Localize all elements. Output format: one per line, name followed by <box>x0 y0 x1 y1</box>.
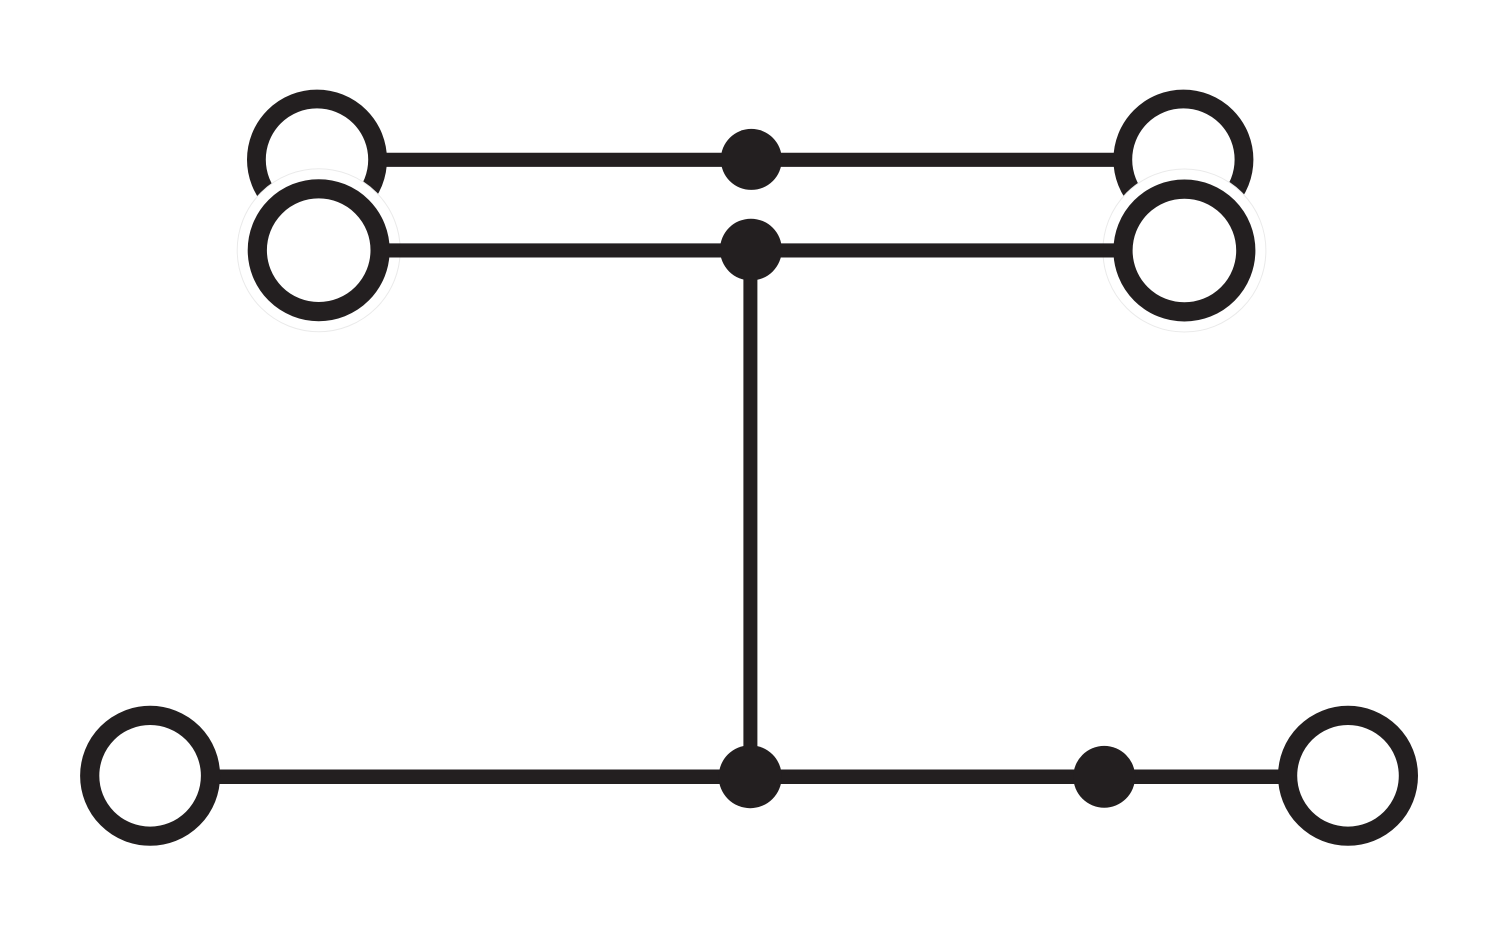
junction dot: row 2 center node <box>720 219 782 281</box>
white halo around second-deck left contact <box>237 169 400 332</box>
junction dot: bottom center node <box>719 745 782 808</box>
terminal circle: upper-deck right contact <box>1123 99 1244 220</box>
white halo around second-deck right contact <box>1103 169 1266 332</box>
wire: bottom bus (row 3) <box>150 769 1348 784</box>
terminal circle: bottom right contact <box>1288 715 1409 836</box>
junction dot: row 1 center node <box>721 129 782 190</box>
terminal circle: second-deck left contact <box>257 189 380 312</box>
wire: vertical link from row-2 node down to bottom bus <box>743 250 757 776</box>
terminal circle: second-deck right contact <box>1123 189 1246 312</box>
wire: upper-deck bus (row 1) <box>317 153 1183 167</box>
wire: second-deck bus (row 2) <box>319 243 1185 257</box>
terminal circle: bottom left contact <box>90 715 211 836</box>
terminal circle: upper-deck left contact <box>256 99 377 220</box>
junction dot: bottom right node <box>1073 746 1135 808</box>
